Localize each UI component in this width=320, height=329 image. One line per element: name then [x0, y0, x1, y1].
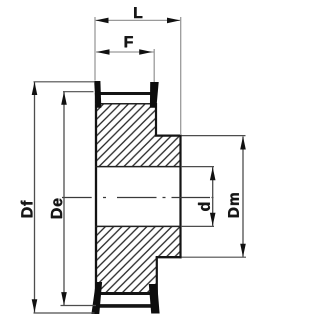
dimension Dm [182, 136, 246, 258]
rim right edge (top) [155, 103, 157, 137]
rim right edge (bottom) [156, 257, 158, 295]
flange top-right [150, 82, 159, 108]
hub right edge [179, 135, 181, 258]
dimension d [181, 167, 216, 227]
tooth root line (bottom) [95, 292, 156, 295]
label d [198, 203, 210, 211]
dimension Df [21, 82, 95, 314]
hub top edge [155, 135, 182, 137]
label Df [21, 201, 33, 218]
rim/hub section hatch (top half) [96, 104, 181, 167]
label L [134, 7, 142, 18]
pulley body left edge [95, 93, 97, 307]
label De [51, 198, 62, 218]
label Dm [228, 193, 238, 217]
bore line (top) [95, 166, 181, 168]
rim/hub section hatch (bottom half) [96, 226, 181, 293]
bore line (bottom) [95, 225, 181, 227]
dimension F [96, 36, 154, 82]
flange bottom-left [91, 282, 102, 314]
flange bottom-right [149, 284, 160, 314]
label F [125, 36, 133, 47]
centerline [62, 197, 214, 199]
belt surface line (bottom) [95, 304, 157, 308]
belt surface line (top) [95, 92, 157, 95]
dimension De [51, 91, 96, 305]
tooth root line (top) [95, 103, 156, 105]
hub bottom edge [156, 256, 182, 258]
dimension L [95, 7, 181, 135]
flange top-left [94, 81, 101, 108]
